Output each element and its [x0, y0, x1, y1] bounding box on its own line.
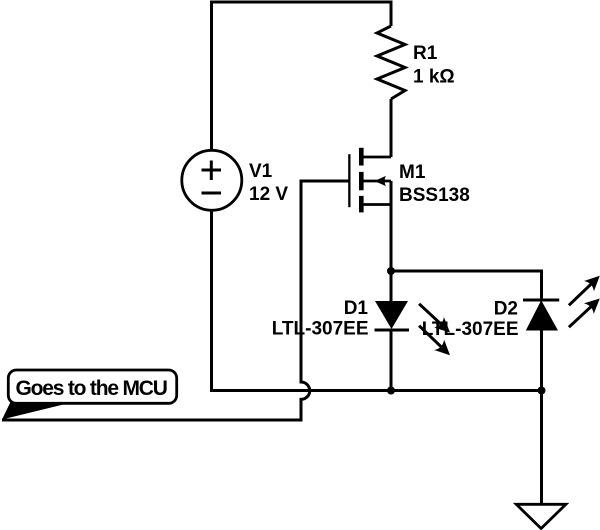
svg-text:Goes to the MCU: Goes to the MCU — [16, 377, 167, 400]
ground — [516, 504, 566, 528]
minus sign — [202, 192, 222, 195]
transistor M1 (NMOS) — [348, 148, 391, 213]
wire: top rail from V1 to R1 — [212, 2, 392, 151]
gate line — [348, 154, 350, 207]
wire: D1 cathode to bottom rail — [390, 330, 393, 391]
wire: gate of M1 down with hop over bottom rail to MCU — [2, 181, 349, 420]
label R1 value — [413, 43, 455, 88]
label D2 — [422, 299, 519, 341]
svg-text:LTL-307EE: LTL-307EE — [272, 319, 369, 340]
svg-text:12 V: 12 V — [249, 184, 288, 205]
D2 light arrows — [569, 284, 591, 305]
wire: node A to D1 anode — [390, 271, 393, 301]
wire: bottom rail to ground — [540, 391, 543, 505]
svg-text:R1: R1 — [413, 43, 438, 64]
wire: D2 anode to bottom rail — [540, 331, 543, 391]
wire: node A to D2 top — [391, 271, 542, 300]
node A junction dot — [387, 267, 395, 275]
svg-text:LTL-307EE: LTL-307EE — [422, 319, 519, 340]
plus sign — [202, 161, 222, 181]
label V1 — [249, 161, 288, 205]
node B junction dot (D1 on bottom rail) — [387, 387, 395, 395]
svg-text:V1: V1 — [249, 161, 273, 182]
D1 light arrows — [419, 304, 441, 325]
channel bar drain — [359, 148, 364, 166]
resistor R1 — [377, 26, 405, 99]
channel bar body — [359, 172, 364, 190]
source lead — [363, 203, 391, 206]
LED D2 (cathode top, anode bottom) — [523, 276, 600, 331]
svg-text:1 kΩ: 1 kΩ — [413, 67, 455, 88]
svg-text:D2: D2 — [494, 299, 518, 320]
body-source tie — [390, 181, 393, 205]
node C junction dot (D2 on bottom rail) — [538, 387, 546, 395]
power source V1 — [182, 150, 242, 210]
wire: M1 source down to node A — [390, 205, 393, 272]
svg-text:D1: D1 — [344, 298, 369, 319]
label M1 — [399, 162, 470, 206]
wire: R1 to M1 drain — [390, 99, 393, 157]
svg-text:BSS138: BSS138 — [399, 185, 470, 206]
svg-text:M1: M1 — [399, 162, 426, 183]
callout "Goes to the MCU" — [2, 370, 177, 420]
body lead with arrow — [363, 180, 391, 183]
drain lead — [363, 156, 391, 159]
wire: V1 bottom down and right along bottom rail — [212, 210, 542, 390]
label D1 — [272, 298, 369, 340]
LED D1 (anode top, cathode bottom) — [375, 301, 451, 355]
channel bar source — [359, 196, 364, 213]
